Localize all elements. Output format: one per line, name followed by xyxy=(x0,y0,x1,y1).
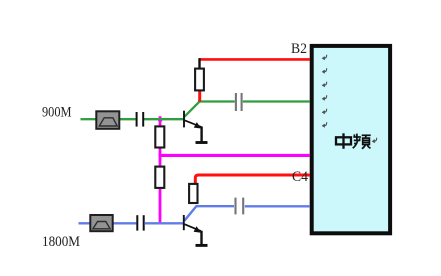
svg-text:1800M: 1800M xyxy=(42,234,80,250)
svg-text:C4: C4 xyxy=(292,169,308,185)
svg-text:900M: 900M xyxy=(42,104,72,120)
svg-text:B2: B2 xyxy=(291,41,307,57)
